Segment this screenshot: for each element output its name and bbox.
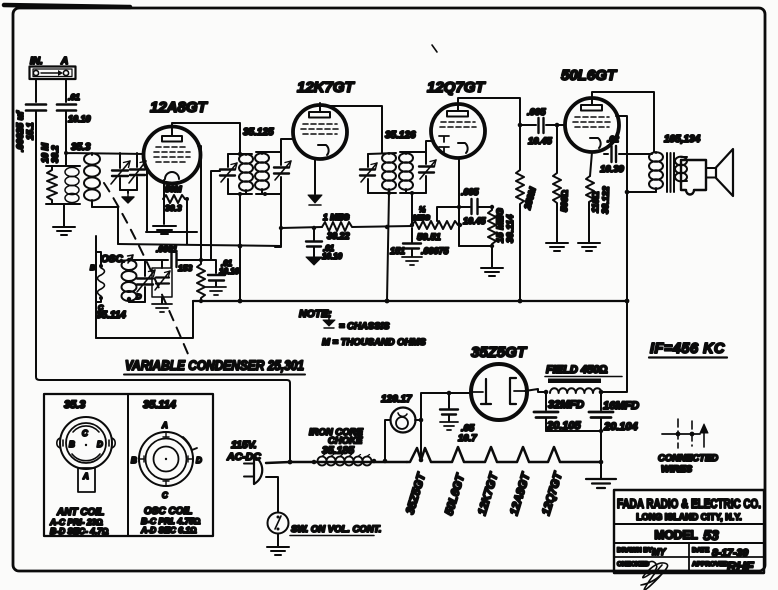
wire: ant coil bottom to AVC rail xyxy=(92,207,118,244)
svg-text:B-D SEC- 4.7Ω: B-D SEC- 4.7Ω xyxy=(50,526,109,536)
svg-text:35Z5GT: 35Z5GT xyxy=(471,344,528,361)
svg-text:10.10: 10.10 xyxy=(322,252,343,261)
svg-text:500Ω: 500Ω xyxy=(559,190,570,212)
rails xyxy=(228,152,281,194)
wire: antenna lead down xyxy=(35,79,37,102)
svg-text:12Q7GT: 12Q7GT xyxy=(427,79,486,96)
wire: grid line to tube xyxy=(66,111,144,166)
svg-text:50L6GT: 50L6GT xyxy=(561,67,618,84)
svg-text:35.114: 35.114 xyxy=(96,310,126,321)
svg-text:NOTE:: NOTE: xyxy=(299,308,332,320)
svg-text:D: D xyxy=(136,292,142,301)
svg-text:12K7GT: 12K7GT xyxy=(297,79,356,96)
wire: 50M to rail xyxy=(185,199,187,244)
svg-text:IF=456 KC: IF=456 KC xyxy=(650,341,725,357)
svg-text:C: C xyxy=(82,429,88,438)
svg-text:.0001: .0001 xyxy=(156,244,178,254)
chassis ground (osc cap) xyxy=(206,287,226,295)
primary vert + cap xyxy=(227,154,229,194)
svg-text:15.1: 15.1 xyxy=(25,122,35,140)
electrolytic 32MFD 20.105 xyxy=(545,392,547,410)
switch SW on vol control xyxy=(268,513,289,534)
svg-text:35.3: 35.3 xyxy=(64,399,85,411)
ground (15MEG) xyxy=(481,268,503,276)
osc trimmer 1 xyxy=(137,260,155,302)
wire: IF1 secondary top to 12K7GT grid xyxy=(281,139,294,152)
wire: 12Q7GT plate to coupling xyxy=(458,98,520,124)
svg-text:12A8GT: 12A8GT xyxy=(150,99,209,116)
antenna terminal strip xyxy=(30,67,76,80)
secondary coil xyxy=(255,153,269,163)
resistor 110ohm 30.122 xyxy=(586,176,594,242)
tube 12A8GT xyxy=(144,127,201,184)
ground (500ohm) xyxy=(546,243,568,251)
svg-text:APPROVED: APPROVED xyxy=(692,561,729,568)
svg-text:110Ω: 110Ω xyxy=(590,191,601,213)
svg-text:10.10: 10.10 xyxy=(68,114,91,124)
resistor 1/2MEG 50.51 xyxy=(412,221,460,229)
svg-text:.005: .005 xyxy=(461,187,480,197)
svg-text:D: D xyxy=(196,456,202,465)
svg-text:B: B xyxy=(131,456,137,465)
svg-text:16MFD: 16MFD xyxy=(603,400,639,412)
electrolytic 16MFD 20.104 xyxy=(600,392,602,462)
wire: rectifier output to field xyxy=(525,389,546,392)
svg-text:10.10: 10.10 xyxy=(219,267,240,276)
wire: bottom link xyxy=(459,245,492,247)
resistor 15MEG 30.114 xyxy=(488,207,496,267)
wire: transformer bottom rail xyxy=(627,191,656,193)
wire: A terminal down xyxy=(65,79,67,102)
svg-text:10.7: 10.7 xyxy=(458,433,477,444)
ground (12A8GT cathode) xyxy=(153,226,176,234)
capacitor .005 10.45 (coupling to 50L6GT) xyxy=(520,124,565,126)
svg-text:10.45: 10.45 xyxy=(528,136,552,147)
wire: IF1 secondary bottom AVC drop xyxy=(275,194,281,247)
svg-text:30.3: 30.3 xyxy=(165,203,182,213)
wire: filter bottom rail xyxy=(546,430,601,432)
svg-text:C: C xyxy=(162,491,168,500)
svg-text:10.39: 10.39 xyxy=(600,164,624,175)
capacitor .01 10.10 (antenna) xyxy=(57,105,76,111)
capacitor .02 10.39 (plate coupling) xyxy=(604,153,652,155)
osc coil detail drawing xyxy=(139,432,197,486)
ground (switch) xyxy=(267,547,289,555)
svg-text:A: A xyxy=(60,56,68,67)
svg-text:MY: MY xyxy=(652,547,666,557)
svg-text:8-17-39: 8-17-39 xyxy=(712,547,748,559)
capacitor 151 .00075 xyxy=(411,228,413,242)
output transformer 105.134 xyxy=(649,152,687,192)
resistor 250M (grid) xyxy=(516,125,524,301)
osc trimmer 2 with box xyxy=(152,260,172,303)
resistor 500ohm xyxy=(553,125,561,242)
svg-text:35.114: 35.114 xyxy=(143,399,176,411)
wire: 50L6GT plate to output transformer xyxy=(592,92,654,152)
coil detail box xyxy=(44,394,213,536)
osc tap arrow A xyxy=(128,255,133,263)
svg-text:M = THOUSAND OHMS: M = THOUSAND OHMS xyxy=(322,337,426,348)
svg-text:RHF: RHF xyxy=(727,559,755,574)
svg-text:20.104: 20.104 xyxy=(603,421,638,433)
osc coil xyxy=(122,258,137,302)
wire: 12K7GT plate to IF2 xyxy=(320,103,382,153)
junction xyxy=(64,151,68,155)
svg-text:35.3: 35.3 xyxy=(71,142,91,153)
svg-text:30.122: 30.122 xyxy=(600,186,611,214)
svg-text:WIRES: WIRES xyxy=(661,464,693,475)
wire: osc top xyxy=(129,259,168,261)
border top thick segment xyxy=(4,5,130,7)
svg-text:B: B xyxy=(90,263,96,272)
osc box bottom wires xyxy=(96,301,193,338)
svg-text:151: 151 xyxy=(390,246,405,256)
svg-text:MODEL: MODEL xyxy=(654,528,697,542)
capacitor .01 10.10 (osc) xyxy=(208,275,225,281)
svg-text:115V.: 115V. xyxy=(231,439,257,451)
wire: 12A8GT plate to IF1 xyxy=(172,123,240,153)
pilot lamp 120.17 xyxy=(391,408,416,433)
svg-text:A: A xyxy=(82,472,89,481)
svg-text:35.125: 35.125 xyxy=(243,127,274,138)
svg-text:50M: 50M xyxy=(165,184,182,194)
title block xyxy=(614,490,764,573)
svg-text:FADA RADIO & ELECTRIC CO.: FADA RADIO & ELECTRIC CO. xyxy=(617,497,761,511)
svg-text:153: 153 xyxy=(178,263,192,273)
wire: heater lamp rail xyxy=(385,393,471,460)
svg-text:VARIABLE CONDENSER 25,301: VARIABLE CONDENSER 25,301 xyxy=(125,358,304,373)
svg-text:30.2: 30.2 xyxy=(50,145,60,163)
rail y245 (AVC return) xyxy=(118,244,281,246)
tube 50L6GT xyxy=(565,98,619,152)
tube 12K7GT xyxy=(293,105,347,159)
wire: suppressor drop x147 xyxy=(146,169,148,232)
trimmer capacitor 2 (padder) xyxy=(129,153,146,190)
chassis arrow (trimmer) xyxy=(122,193,134,203)
svg-text:SW. ON VOL. CONT.: SW. ON VOL. CONT. xyxy=(291,524,381,535)
capacitor .005 10.45 (diode load) xyxy=(437,207,492,221)
svg-text:D: D xyxy=(97,440,103,449)
resistor 50M 30.3 xyxy=(163,195,185,203)
wire: screen drop x201 xyxy=(198,146,201,261)
svg-text:FIELD 450Ω: FIELD 450Ω xyxy=(546,364,608,376)
svg-text:10 M: 10 M xyxy=(40,142,50,163)
ground (B-) xyxy=(600,462,602,478)
resistor 1MEG 30.22 xyxy=(322,222,412,231)
secondary vert + cap xyxy=(280,152,282,194)
svg-text:35.185: 35.185 xyxy=(322,445,354,457)
dashed gang line xyxy=(104,183,188,354)
svg-text:50.51: 50.51 xyxy=(417,232,441,243)
svg-text:30.22: 30.22 xyxy=(327,231,350,241)
trimmer capacitor (ant, gang section) xyxy=(111,153,130,190)
chassis arrow (12K7GT cathode) xyxy=(308,195,322,203)
svg-text:1 MEG: 1 MEG xyxy=(323,212,350,222)
speaker xyxy=(681,149,733,196)
svg-text:MEG: MEG xyxy=(413,213,430,222)
wire: switch to ground xyxy=(277,534,279,547)
svg-text:DATE: DATE xyxy=(692,547,710,554)
resistor 30M (osc grid) xyxy=(197,261,205,301)
wire: AVC line xyxy=(281,227,322,228)
antenna coil 35.3 xyxy=(84,153,100,207)
svg-text:120.17: 120.17 xyxy=(381,394,412,405)
wire: trimmer bottom rail xyxy=(120,190,137,193)
tube 12Q7GT xyxy=(431,104,485,158)
wire: IF2 secondary top to 12Q7GT grid xyxy=(426,141,434,152)
svg-text:LONG ISLAND CITY, N.Y.: LONG ISLAND CITY, N.Y. xyxy=(636,512,742,522)
svg-text:B: B xyxy=(69,440,75,449)
osc feedback winding B-C xyxy=(96,236,105,338)
wire: plug to switch xyxy=(266,477,278,512)
svg-text:.01: .01 xyxy=(68,92,80,102)
resistor 10M 30.2 with shunt coil xyxy=(46,166,80,226)
ground (110ohm) xyxy=(578,243,600,251)
capacitor .05 10.7 xyxy=(448,393,450,408)
IF transformer 35.126 xyxy=(360,152,436,193)
svg-text:10.45: 10.45 xyxy=(463,216,487,226)
wire: osc bottom rail xyxy=(129,301,145,303)
wire: IF1 primary bottom to bus xyxy=(239,194,241,301)
ant coil detail drawing xyxy=(57,417,115,492)
chassis arrow (.01 AVC) xyxy=(306,257,322,265)
svg-text:CONNECTED: CONNECTED xyxy=(658,453,718,464)
wire: 12K7GT cathode xyxy=(314,159,316,194)
wire: 50L6GT cathode xyxy=(590,152,592,176)
wire: antenna ground return (long) xyxy=(36,111,290,462)
ground (10M) xyxy=(53,227,75,235)
main B- bus y301 xyxy=(193,300,627,302)
chassis ground (osc trimmer) xyxy=(152,304,172,312)
wire: IF2 primary bottom to bus xyxy=(387,193,389,301)
primary coil xyxy=(239,154,253,164)
svg-text:= CHASSIS: = CHASSIS xyxy=(339,321,390,332)
svg-text:30.114: 30.114 xyxy=(505,214,516,243)
capacitor .00025uf 15.1 xyxy=(26,105,46,111)
tube 35Z5GT rectifier xyxy=(471,364,527,420)
IF transformer 35.125 xyxy=(220,152,291,194)
svg-text:.005: .005 xyxy=(527,107,546,118)
chassis symbol example xyxy=(328,312,330,320)
svg-text:IN.: IN. xyxy=(30,56,43,67)
AC plug xyxy=(244,456,262,484)
wire: 12A8GT cathode to ground xyxy=(163,180,165,224)
rail y232 xyxy=(146,231,197,233)
svg-text:32MFD: 32MFD xyxy=(548,399,584,411)
wire: 12Q7GT cathode drop xyxy=(458,158,460,246)
svg-text:.00075: .00075 xyxy=(421,246,450,256)
svg-text:.02: .02 xyxy=(607,134,619,144)
capacitor .0001 153 xyxy=(172,253,202,267)
connected wires symbol xyxy=(662,419,708,448)
capacitor .01 10.10 (AVC) xyxy=(313,228,315,240)
wire: screen/B+ drop x627 xyxy=(600,116,627,392)
svg-text:A: A xyxy=(161,421,168,430)
svg-text:DRAWN BY: DRAWN BY xyxy=(617,547,653,554)
heater ballast zigzag xyxy=(407,447,601,462)
wire: to osc bypass cap xyxy=(201,171,220,273)
svg-text:53: 53 xyxy=(703,527,719,543)
svg-text:A-D SEC 6.1Ω: A-D SEC 6.1Ω xyxy=(140,525,197,535)
svg-text:105,134: 105,134 xyxy=(664,134,701,145)
svg-text:35.126: 35.126 xyxy=(385,130,416,141)
wire: AC line xyxy=(266,462,407,463)
stray pen mark xyxy=(432,45,437,52)
wire: IF2 secondary bottom to 50.51 xyxy=(411,193,413,225)
